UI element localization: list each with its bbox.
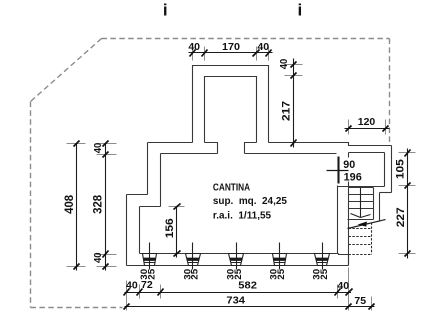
svg-text:40: 40 [93, 252, 104, 263]
column centerline [322, 243, 324, 270]
protrusion inner walls [205, 77, 257, 143]
tick marks [74, 141, 80, 270]
break line arrowhead [358, 222, 367, 227]
right-of-protrusion vertical dimension 40/217 [279, 59, 303, 148]
dashed stair treads below break [349, 223, 372, 255]
column lower line [188, 262, 199, 264]
window fraction bar [327, 170, 349, 172]
dimension line [125, 292, 352, 294]
column fill band [316, 258, 329, 261]
tick marks [124, 289, 353, 296]
column centerline [149, 243, 151, 270]
left outer wall upper [147, 143, 149, 195]
left inner wall upper [160, 154, 162, 207]
protrusion outer walls [193, 66, 269, 143]
column lower line [145, 262, 156, 264]
tick marks [190, 50, 272, 57]
room right inner wall [337, 186, 339, 254]
dimension 120 [345, 117, 390, 135]
dimension line [407, 149, 409, 259]
top dimension 40/170/40 [188, 42, 272, 60]
stair lower solid line [348, 219, 374, 221]
dimension line [105, 144, 107, 271]
bottom inner wall [140, 253, 339, 255]
top outer wall right segment with step [269, 143, 392, 146]
boundary diagonal [31, 39, 102, 102]
boundary top [102, 38, 390, 40]
extension lines [169, 206, 185, 208]
svg-text:90: 90 [343, 159, 355, 171]
svg-text:582: 582 [238, 280, 257, 291]
left outer wall lower [126, 195, 128, 266]
svg-text:25: 25 [233, 268, 244, 279]
dashed stair right edge [371, 223, 373, 255]
extension lines [349, 120, 386, 135]
svg-text:25: 25 [147, 268, 158, 279]
svg-text:227: 227 [395, 207, 407, 227]
tick marks [291, 62, 297, 147]
svg-text:328: 328 [91, 195, 105, 214]
svg-text:156: 156 [164, 218, 176, 238]
notch left of opening [205, 143, 218, 154]
column fill band [187, 258, 200, 261]
tick marks [346, 126, 389, 132]
svg-text:196: 196 [344, 171, 362, 183]
top outer wall left segment [148, 142, 193, 144]
top inner wall right segment [245, 153, 337, 155]
svg-text:25: 25 [276, 268, 287, 279]
svg-text:40: 40 [279, 59, 290, 70]
tick marks [124, 304, 375, 310]
svg-text:40: 40 [93, 143, 104, 154]
stair centerline [360, 188, 362, 218]
extension lines [399, 153, 416, 254]
stair direction chevron [351, 214, 371, 218]
bottom wall right end step [339, 254, 349, 266]
extension lines [193, 47, 269, 61]
bottom dimension row 734/75 [124, 295, 375, 309]
tick marks [174, 204, 181, 257]
svg-text:i: i [298, 1, 303, 20]
stair break line [348, 220, 386, 229]
column P4 30/25 [269, 243, 287, 280]
column trapezoid outline [186, 254, 201, 266]
svg-text:sup. mq. 24,25: sup. mq. 24,25 [213, 196, 287, 207]
svg-text:40: 40 [126, 280, 138, 291]
column trapezoid outline [315, 254, 330, 266]
dimension line [345, 128, 390, 130]
bottom outer wall [127, 265, 349, 267]
svg-text:25: 25 [190, 268, 201, 279]
svg-text:25: 25 [319, 268, 330, 279]
svg-text:75: 75 [354, 296, 366, 307]
column trapezoid outline [273, 254, 287, 266]
right outer wall upper [391, 146, 393, 193]
column lower line [274, 262, 285, 264]
column trapezoid outline [229, 254, 244, 266]
svg-text:408: 408 [62, 195, 76, 214]
bottom dimension row 40/72/582/40 [124, 268, 372, 311]
notch right of opening [245, 143, 257, 154]
svg-text:40: 40 [257, 42, 269, 53]
column lower line [317, 262, 328, 264]
boundary right vertical [389, 39, 391, 145]
svg-text:217: 217 [280, 101, 292, 121]
svg-text:170: 170 [222, 42, 240, 53]
svg-text:CANTINA: CANTINA [213, 183, 251, 194]
bay inner top [349, 152, 385, 154]
dashed stair bottom [349, 254, 372, 256]
interior dimension 156 [164, 204, 185, 258]
left inner dimension 40/328/40 [91, 141, 117, 271]
column P1 30/25 [139, 243, 157, 280]
stair treads [348, 188, 374, 220]
tick marks [405, 150, 411, 257]
top inner wall left segment [161, 153, 218, 155]
svg-text:120: 120 [358, 117, 376, 128]
svg-text:r.a.i. 1/11,55: r.a.i. 1/11,55 [213, 210, 272, 221]
extension lines [97, 144, 117, 267]
column P2 30/25 [182, 243, 200, 280]
svg-text:105: 105 [395, 159, 407, 179]
svg-text:72: 72 [141, 280, 153, 291]
left inner step [140, 206, 161, 208]
boundary left vertical [30, 102, 32, 308]
column P3 30/25 [226, 243, 244, 280]
extension lines [67, 144, 86, 267]
stair right edge [373, 188, 375, 220]
dimension line [189, 52, 273, 54]
dimension line [176, 207, 178, 258]
left outer dimension 408 [62, 141, 85, 271]
column fill band [143, 258, 156, 261]
svg-text:734: 734 [226, 295, 245, 306]
extension lines [285, 65, 303, 76]
window glazing bar 90/196 [337, 157, 339, 184]
boundary bottom [31, 307, 123, 309]
tick marks [103, 141, 109, 270]
bay bottom / landing edge [338, 186, 385, 188]
dimension line [293, 59, 295, 148]
column centerline [279, 243, 281, 270]
walls [127, 66, 392, 266]
column lower line [231, 262, 242, 264]
column centerline [236, 243, 238, 270]
property boundary dashed line [31, 39, 390, 308]
right outer step [380, 192, 392, 194]
left inner wall lower [139, 207, 141, 254]
dimension line [125, 306, 375, 308]
left outer step [127, 194, 148, 196]
column centerline [192, 243, 194, 270]
column trapezoid outline [143, 254, 157, 266]
svg-text:i: i [163, 1, 168, 20]
extension lines [127, 268, 372, 311]
column P5 30/25 [312, 243, 330, 280]
bay inner right wall [384, 153, 386, 187]
svg-text:40: 40 [188, 42, 200, 53]
column fill band [230, 258, 243, 261]
right dimension 105/227 [395, 149, 416, 259]
svg-text:40: 40 [337, 281, 349, 292]
column fill band [273, 258, 286, 261]
stair left edge wall [348, 153, 350, 266]
right outer wall lower cut at break [379, 193, 381, 222]
dimension line [76, 144, 78, 271]
